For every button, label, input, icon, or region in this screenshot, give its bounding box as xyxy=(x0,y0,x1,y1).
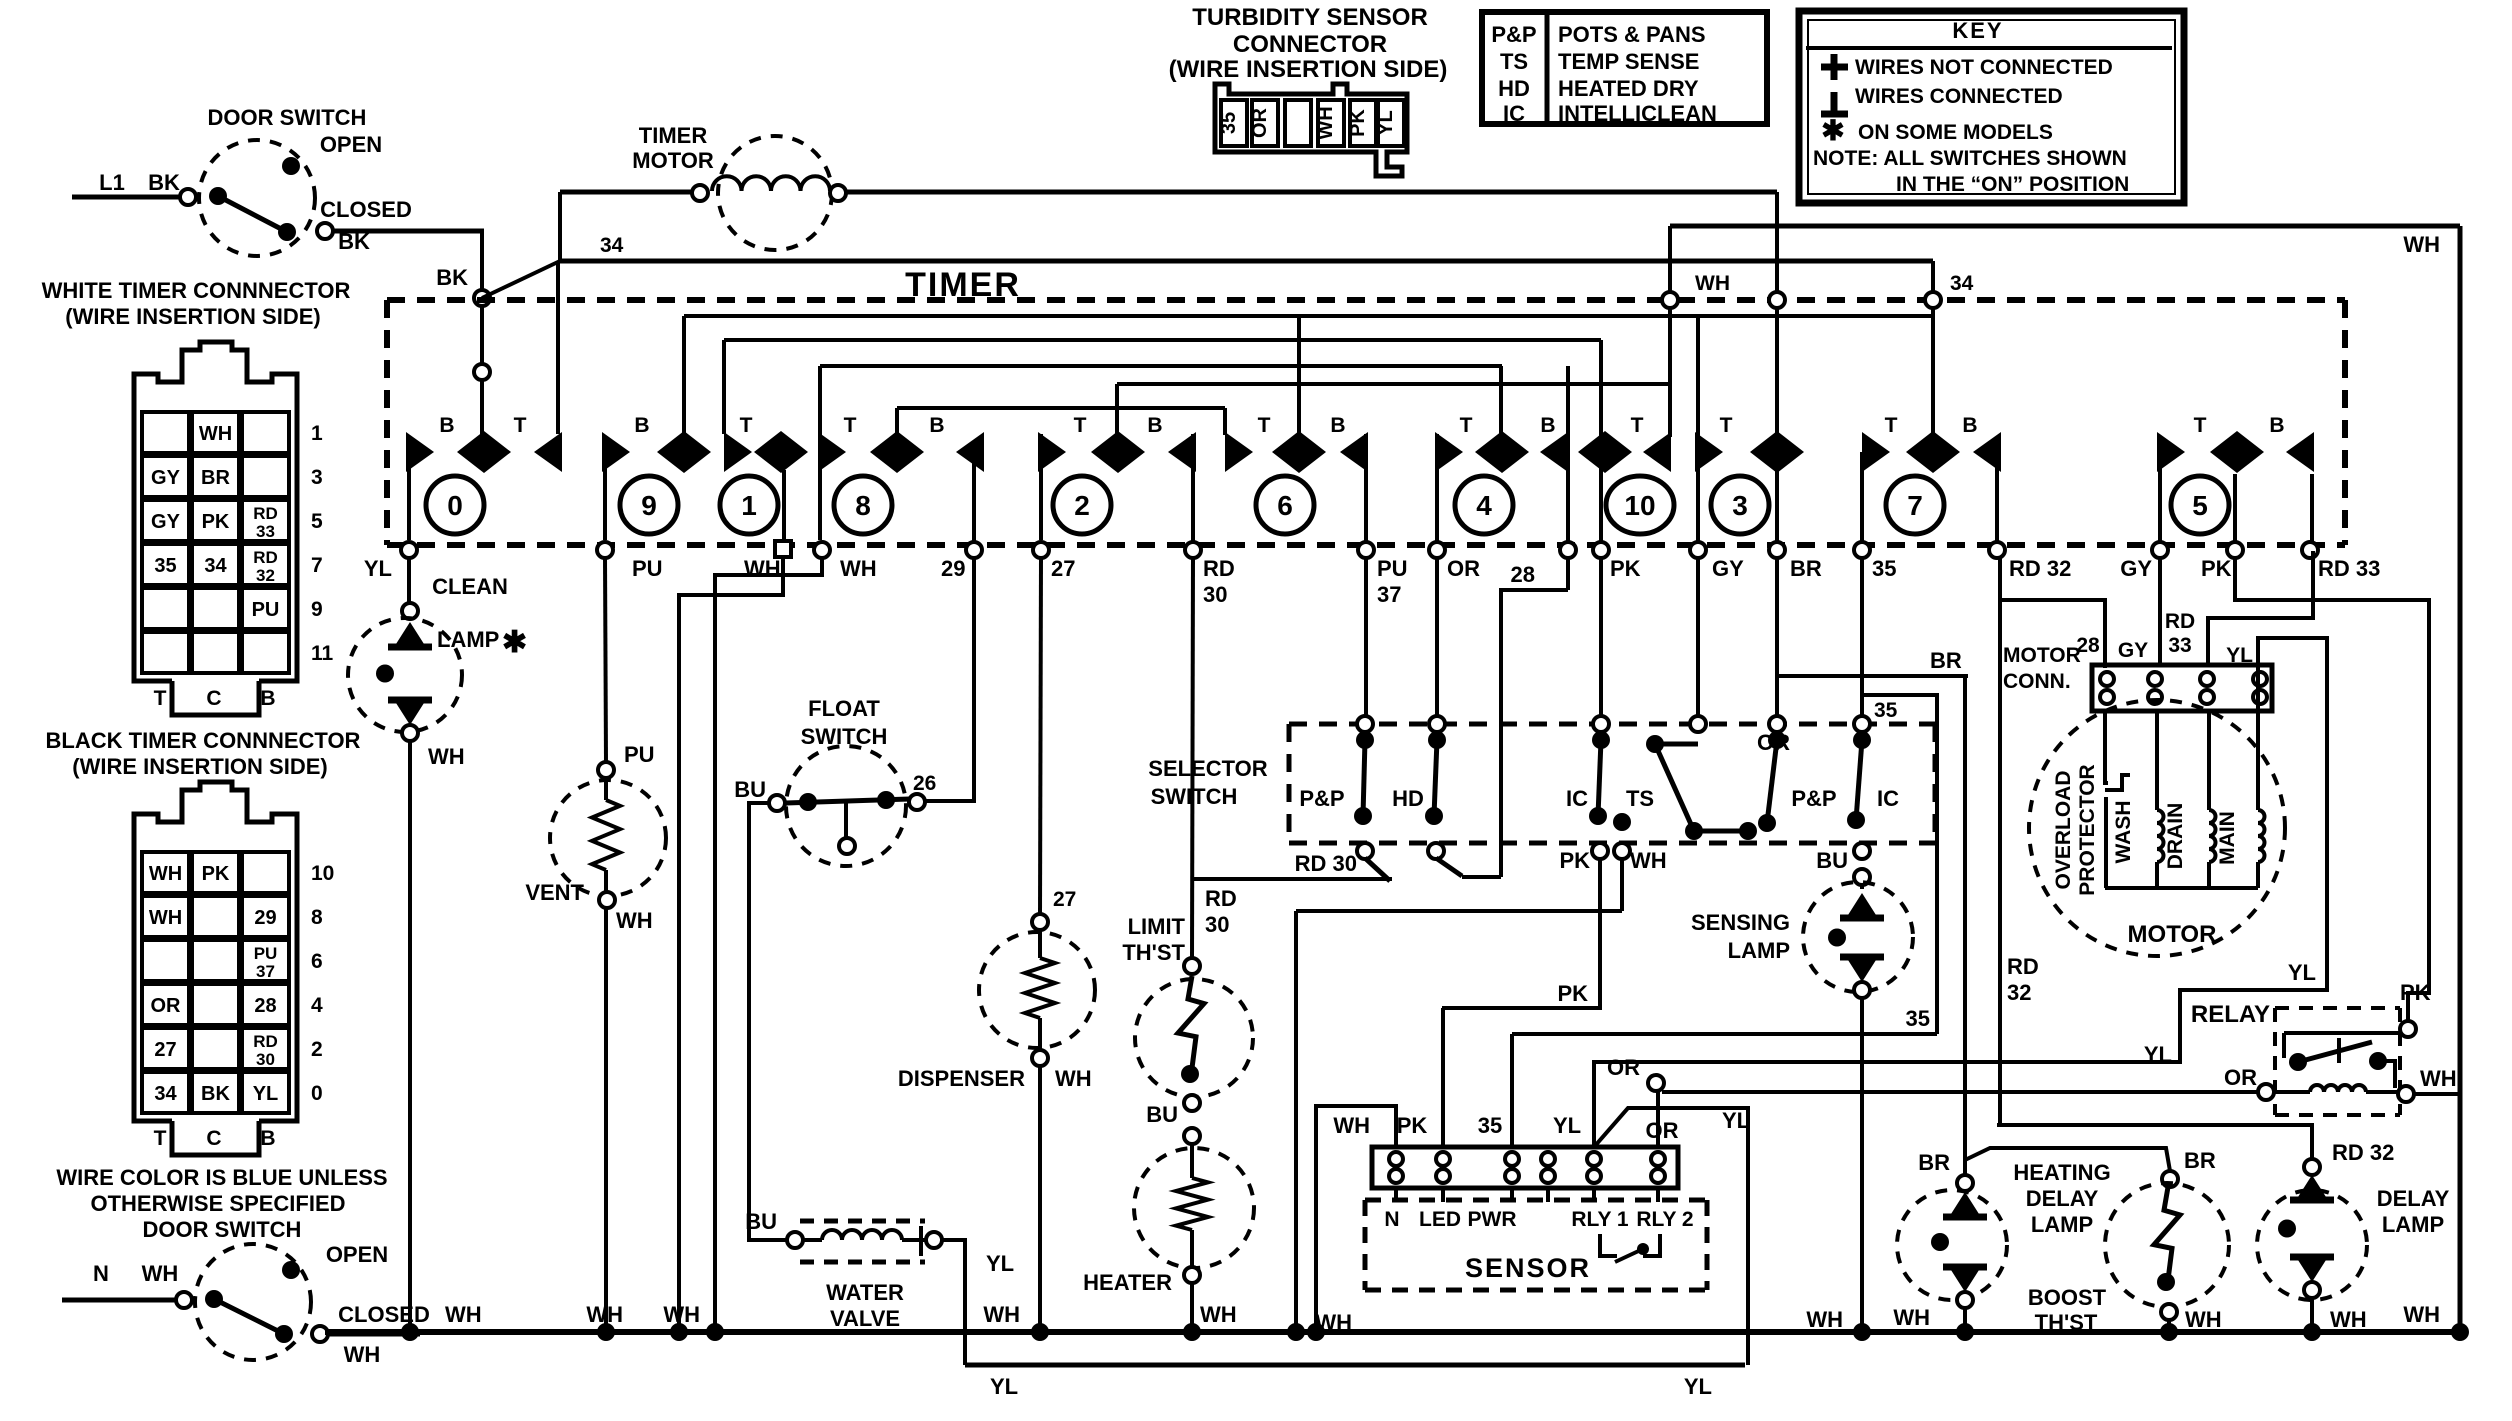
svg-text:DISPENSER: DISPENSER xyxy=(898,1066,1025,1091)
svg-text:9: 9 xyxy=(641,490,657,521)
svg-text:WH: WH xyxy=(1630,848,1667,873)
svg-text:9: 9 xyxy=(311,598,323,621)
svg-text:YL: YL xyxy=(2226,644,2253,667)
svg-text:0: 0 xyxy=(447,490,463,521)
svg-text:WIRES CONNECTED: WIRES CONNECTED xyxy=(1855,85,2063,108)
svg-text:T: T xyxy=(1460,414,1473,437)
svg-text:32: 32 xyxy=(2007,980,2031,1005)
svg-text:WH: WH xyxy=(2420,1066,2457,1091)
svg-text:YL: YL xyxy=(1684,1374,1712,1399)
svg-text:BLACK TIMER CONNNECTOR: BLACK TIMER CONNNECTOR xyxy=(46,728,361,753)
svg-text:7: 7 xyxy=(311,554,323,577)
svg-text:RD: RD xyxy=(2007,954,2039,979)
svg-text:3: 3 xyxy=(311,466,323,489)
svg-text:MOTOR: MOTOR xyxy=(2128,921,2217,948)
svg-text:WH: WH xyxy=(1315,106,1337,139)
svg-text:P&P: P&P xyxy=(1299,786,1344,811)
svg-text:WHITE TIMER CONNNECTOR: WHITE TIMER CONNNECTOR xyxy=(42,278,351,303)
svg-text:BR: BR xyxy=(201,467,230,489)
svg-text:WH: WH xyxy=(2330,1307,2367,1332)
svg-text:P&P: P&P xyxy=(1491,22,1536,47)
svg-text:T: T xyxy=(2194,414,2207,437)
svg-text:YL: YL xyxy=(1722,1108,1750,1133)
svg-text:35: 35 xyxy=(154,555,176,577)
svg-text:WH: WH xyxy=(142,1261,179,1286)
svg-text:T: T xyxy=(1720,414,1733,437)
svg-text:B: B xyxy=(439,414,454,437)
svg-text:RLY 1: RLY 1 xyxy=(1571,1208,1629,1231)
svg-text:WH: WH xyxy=(1055,1066,1092,1091)
svg-text:SWITCH: SWITCH xyxy=(1151,784,1238,809)
svg-text:WH: WH xyxy=(428,744,465,769)
svg-text:RD 33: RD 33 xyxy=(2318,556,2380,581)
svg-text:8: 8 xyxy=(311,906,323,929)
svg-text:8: 8 xyxy=(855,490,871,521)
svg-text:28: 28 xyxy=(2076,634,2100,657)
svg-text:KEY: KEY xyxy=(1952,18,2003,43)
svg-text:DELAY: DELAY xyxy=(2377,1186,2450,1211)
svg-text:WH: WH xyxy=(1893,1305,1930,1330)
svg-text:7: 7 xyxy=(1907,490,1923,521)
svg-text:YL: YL xyxy=(364,556,392,581)
svg-text:WH: WH xyxy=(2403,232,2440,257)
svg-text:IN THE “ON” POSITION: IN THE “ON” POSITION xyxy=(1896,173,2129,196)
svg-text:SENSING: SENSING xyxy=(1691,910,1790,935)
svg-text:WH: WH xyxy=(445,1302,482,1327)
svg-text:PU: PU xyxy=(624,742,655,767)
svg-text:6: 6 xyxy=(311,950,323,973)
svg-text:5: 5 xyxy=(2192,490,2208,521)
svg-text:VALVE: VALVE xyxy=(830,1306,900,1331)
svg-text:34: 34 xyxy=(204,555,227,577)
svg-text:WIRES NOT CONNECTED: WIRES NOT CONNECTED xyxy=(1855,56,2113,79)
svg-text:RD 32: RD 32 xyxy=(2009,556,2071,581)
svg-text:LIMIT: LIMIT xyxy=(1128,914,1186,939)
svg-text:PK: PK xyxy=(202,863,230,885)
svg-text:P&P: P&P xyxy=(1791,786,1836,811)
svg-text:28: 28 xyxy=(254,995,276,1017)
svg-text:LED: LED xyxy=(1419,1208,1461,1231)
svg-text:T: T xyxy=(154,687,167,710)
svg-text:BU: BU xyxy=(1816,848,1848,873)
svg-text:CLEAN: CLEAN xyxy=(432,574,508,599)
svg-text:INTELLICLEAN: INTELLICLEAN xyxy=(1558,101,1717,126)
svg-text:(WIRE INSERTION SIDE): (WIRE INSERTION SIDE) xyxy=(1169,56,1448,83)
svg-text:YL: YL xyxy=(253,1083,279,1105)
svg-text:RD 30: RD 30 xyxy=(1295,851,1357,876)
svg-text:BR: BR xyxy=(1918,1150,1950,1175)
svg-text:OVERLOAD: OVERLOAD xyxy=(2052,770,2075,889)
svg-text:HEATED DRY: HEATED DRY xyxy=(1558,76,1699,101)
svg-text:B: B xyxy=(634,414,649,437)
svg-text:BK: BK xyxy=(436,265,468,290)
svg-text:OR: OR xyxy=(1646,1118,1679,1143)
svg-text:10: 10 xyxy=(311,862,334,885)
svg-text:27: 27 xyxy=(1051,556,1075,581)
svg-text:WH: WH xyxy=(1806,1307,1843,1332)
svg-text:OR: OR xyxy=(1607,1055,1640,1080)
svg-text:6: 6 xyxy=(1277,490,1293,521)
svg-text:T: T xyxy=(740,414,753,437)
svg-text:SELECTOR: SELECTOR xyxy=(1148,756,1268,781)
svg-text:NOTE: ALL SWITCHES SHOWN: NOTE: ALL SWITCHES SHOWN xyxy=(1813,147,2127,170)
svg-text:T: T xyxy=(844,414,857,437)
svg-text:DOOR SWITCH: DOOR SWITCH xyxy=(143,1217,302,1242)
svg-text:32: 32 xyxy=(256,566,275,585)
svg-text:IC: IC xyxy=(1503,101,1525,126)
svg-text:35: 35 xyxy=(1872,556,1896,581)
svg-text:27: 27 xyxy=(1053,888,1076,911)
svg-text:C: C xyxy=(206,1127,221,1150)
svg-text:RELAY: RELAY xyxy=(2191,1001,2270,1028)
svg-text:29: 29 xyxy=(941,556,965,581)
svg-text:VENT: VENT xyxy=(525,880,584,905)
svg-text:T: T xyxy=(514,414,527,437)
svg-text:✱: ✱ xyxy=(502,626,527,659)
svg-text:CLOSED: CLOSED xyxy=(338,1302,430,1327)
svg-text:RD: RD xyxy=(1205,886,1237,911)
svg-text:YL: YL xyxy=(1553,1113,1581,1138)
svg-text:B: B xyxy=(929,414,944,437)
svg-text:35: 35 xyxy=(1906,1006,1930,1031)
svg-text:B: B xyxy=(260,687,275,710)
svg-text:LAMP: LAMP xyxy=(2382,1212,2444,1237)
svg-text:FLOAT: FLOAT xyxy=(808,696,880,721)
svg-text:LAMP: LAMP xyxy=(2031,1212,2093,1237)
svg-text:WH: WH xyxy=(663,1302,700,1327)
svg-text:4: 4 xyxy=(1476,490,1492,521)
svg-text:WH: WH xyxy=(2185,1307,2222,1332)
svg-text:2: 2 xyxy=(311,1038,323,1061)
svg-text:28: 28 xyxy=(1511,562,1535,587)
svg-text:(WIRE INSERTION SIDE): (WIRE INSERTION SIDE) xyxy=(65,304,320,329)
svg-text:N: N xyxy=(93,1261,109,1286)
svg-text:DOOR SWITCH: DOOR SWITCH xyxy=(208,105,367,130)
svg-text:3: 3 xyxy=(1732,490,1748,521)
svg-text:HD: HD xyxy=(1392,786,1424,811)
svg-text:30: 30 xyxy=(1203,582,1227,607)
svg-text:BU: BU xyxy=(1146,1102,1178,1127)
svg-text:YL: YL xyxy=(986,1251,1014,1276)
svg-text:GY: GY xyxy=(1712,556,1744,581)
svg-text:T: T xyxy=(1631,414,1644,437)
svg-text:BK: BK xyxy=(201,1083,230,1105)
svg-text:OPEN: OPEN xyxy=(326,1242,388,1267)
svg-text:L1: L1 xyxy=(99,170,125,195)
svg-text:BU: BU xyxy=(734,777,766,802)
svg-text:PK: PK xyxy=(1397,1113,1428,1138)
svg-text:GY: GY xyxy=(151,511,181,533)
svg-text:IC: IC xyxy=(1877,786,1899,811)
svg-text:BK: BK xyxy=(148,170,180,195)
svg-text:PU: PU xyxy=(254,944,278,963)
svg-text:PK: PK xyxy=(1557,981,1588,1006)
svg-text:T: T xyxy=(1885,414,1898,437)
svg-text:0: 0 xyxy=(311,1082,323,1105)
svg-text:CONN.: CONN. xyxy=(2003,670,2071,693)
svg-text:OR: OR xyxy=(2224,1065,2257,1090)
svg-text:TH'ST: TH'ST xyxy=(1122,940,1185,965)
svg-text:HEATING: HEATING xyxy=(2013,1160,2110,1185)
svg-text:YL: YL xyxy=(1375,110,1397,136)
svg-text:PU: PU xyxy=(1377,556,1408,581)
svg-text:LAMP: LAMP xyxy=(437,627,499,652)
svg-text:RD: RD xyxy=(253,504,278,523)
svg-text:B: B xyxy=(1962,414,1977,437)
svg-text:WH: WH xyxy=(1200,1302,1237,1327)
svg-text:N: N xyxy=(1384,1208,1399,1231)
svg-text:PU: PU xyxy=(632,556,663,581)
svg-text:SENSOR: SENSOR xyxy=(1465,1253,1591,1283)
svg-text:WH: WH xyxy=(149,863,182,885)
svg-text:B: B xyxy=(260,1127,275,1150)
svg-text:WH: WH xyxy=(744,556,781,581)
svg-text:RD: RD xyxy=(253,548,278,567)
svg-text:WH: WH xyxy=(1333,1113,1370,1138)
svg-text:RD: RD xyxy=(2165,610,2195,633)
svg-text:TS: TS xyxy=(1500,49,1528,74)
svg-text:WH: WH xyxy=(344,1342,381,1367)
svg-text:WASH: WASH xyxy=(2112,801,2135,864)
svg-text:WH: WH xyxy=(616,908,653,933)
svg-text:11: 11 xyxy=(311,642,334,665)
svg-text:YL: YL xyxy=(990,1374,1018,1399)
svg-text:T: T xyxy=(1258,414,1271,437)
svg-text:MAIN: MAIN xyxy=(2216,811,2239,865)
svg-text:5: 5 xyxy=(311,510,323,533)
svg-text:WH: WH xyxy=(586,1302,623,1327)
svg-text:T: T xyxy=(1074,414,1087,437)
svg-text:PROTECTOR: PROTECTOR xyxy=(2076,764,2099,895)
svg-text:MOTOR: MOTOR xyxy=(632,148,714,173)
svg-text:30: 30 xyxy=(256,1050,275,1069)
svg-text:10: 10 xyxy=(1624,490,1655,521)
svg-text:WH: WH xyxy=(840,556,877,581)
svg-text:OTHERWISE SPECIFIED: OTHERWISE SPECIFIED xyxy=(90,1191,345,1216)
svg-text:PK: PK xyxy=(2201,556,2232,581)
svg-text:PK: PK xyxy=(1559,848,1590,873)
svg-text:WH: WH xyxy=(983,1302,1020,1327)
svg-text:OPEN: OPEN xyxy=(320,132,382,157)
svg-text:1: 1 xyxy=(311,422,323,445)
svg-text:37: 37 xyxy=(1377,582,1401,607)
svg-text:BR: BR xyxy=(2184,1148,2216,1173)
svg-text:TURBIDITY SENSOR: TURBIDITY SENSOR xyxy=(1192,4,1428,31)
svg-text:BOOST: BOOST xyxy=(2028,1285,2107,1310)
svg-text:RD: RD xyxy=(253,1032,278,1051)
svg-text:OR: OR xyxy=(1447,556,1480,581)
svg-text:B: B xyxy=(1330,414,1345,437)
svg-text:SWITCH: SWITCH xyxy=(801,724,888,749)
svg-text:30: 30 xyxy=(1205,912,1229,937)
svg-text:DRAIN: DRAIN xyxy=(2164,803,2187,870)
svg-text:C: C xyxy=(206,687,221,710)
svg-text:TS: TS xyxy=(1626,786,1654,811)
svg-text:DELAY: DELAY xyxy=(2026,1186,2099,1211)
svg-text:HD: HD xyxy=(1498,76,1530,101)
svg-text:TIMER: TIMER xyxy=(639,123,708,148)
svg-text:POTS & PANS: POTS & PANS xyxy=(1558,22,1706,47)
svg-text:LAMP: LAMP xyxy=(1728,938,1790,963)
svg-text:✱: ✱ xyxy=(1821,115,1844,146)
svg-text:34: 34 xyxy=(600,234,624,257)
svg-text:WH: WH xyxy=(199,423,232,445)
svg-text:PU: PU xyxy=(252,599,280,621)
svg-text:CONNECTOR: CONNECTOR xyxy=(1233,31,1387,58)
svg-text:PK: PK xyxy=(1347,109,1369,137)
svg-text:OR: OR xyxy=(151,995,182,1017)
svg-text:BR: BR xyxy=(1930,648,1962,673)
svg-text:OR: OR xyxy=(1249,107,1271,138)
svg-text:27: 27 xyxy=(154,1039,176,1061)
svg-text:CLOSED: CLOSED xyxy=(320,197,412,222)
svg-text:35: 35 xyxy=(1478,1113,1502,1138)
svg-text:34: 34 xyxy=(1950,272,1974,295)
svg-text:WH: WH xyxy=(149,907,182,929)
svg-text:IC: IC xyxy=(1566,786,1588,811)
svg-text:35: 35 xyxy=(1218,112,1240,134)
svg-text:RD 32: RD 32 xyxy=(2332,1140,2394,1165)
svg-text:GY: GY xyxy=(2120,556,2152,581)
svg-text:4: 4 xyxy=(311,994,323,1017)
svg-text:PK: PK xyxy=(2400,980,2431,1005)
svg-text:RLY 2: RLY 2 xyxy=(1636,1208,1693,1231)
svg-text:T: T xyxy=(154,1127,167,1150)
svg-text:PK: PK xyxy=(1610,556,1641,581)
svg-text:BU: BU xyxy=(745,1209,777,1234)
svg-text:YL: YL xyxy=(2288,960,2316,985)
svg-text:MOTOR: MOTOR xyxy=(2003,644,2081,667)
svg-text:B: B xyxy=(1540,414,1555,437)
svg-text:2: 2 xyxy=(1074,490,1090,521)
svg-text:YL: YL xyxy=(2144,1042,2172,1067)
svg-text:B: B xyxy=(1147,414,1162,437)
svg-text:1: 1 xyxy=(741,490,757,521)
svg-text:GY: GY xyxy=(151,467,181,489)
svg-text:26: 26 xyxy=(913,772,936,795)
svg-text:B: B xyxy=(2269,414,2284,437)
svg-text:WH: WH xyxy=(1695,272,1730,295)
svg-text:37: 37 xyxy=(256,962,275,981)
svg-text:WATER: WATER xyxy=(826,1280,904,1305)
svg-text:(WIRE INSERTION SIDE): (WIRE INSERTION SIDE) xyxy=(72,754,327,779)
svg-text:OR: OR xyxy=(1757,730,1790,755)
svg-text:29: 29 xyxy=(254,907,276,929)
svg-text:33: 33 xyxy=(2168,634,2191,657)
svg-text:35: 35 xyxy=(1874,699,1898,722)
svg-text:TEMP SENSE: TEMP SENSE xyxy=(1558,49,1699,74)
svg-text:WH: WH xyxy=(2403,1302,2440,1327)
svg-text:ON SOME MODELS: ON SOME MODELS xyxy=(1858,121,2053,144)
svg-text:GY: GY xyxy=(2118,639,2148,662)
svg-text:WIRE COLOR IS BLUE UNLESS: WIRE COLOR IS BLUE UNLESS xyxy=(56,1165,387,1190)
svg-text:RD: RD xyxy=(1203,556,1235,581)
svg-text:PWR: PWR xyxy=(1468,1208,1517,1231)
svg-text:BR: BR xyxy=(1790,556,1822,581)
svg-text:PK: PK xyxy=(202,511,230,533)
svg-text:33: 33 xyxy=(256,522,275,541)
svg-text:HEATER: HEATER xyxy=(1083,1270,1172,1295)
svg-text:34: 34 xyxy=(154,1083,177,1105)
